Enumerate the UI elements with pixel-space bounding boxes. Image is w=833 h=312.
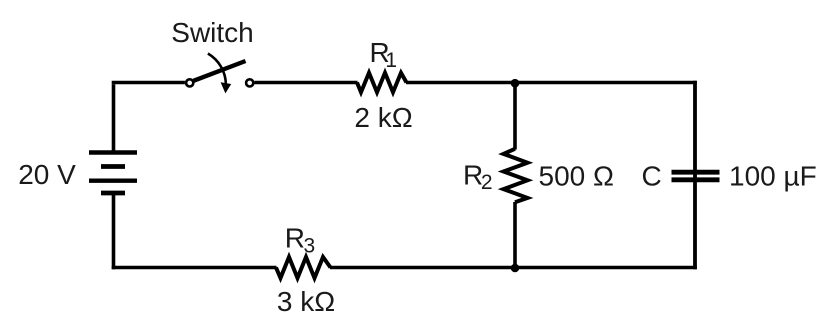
wire R2 branch lower <box>513 202 517 269</box>
svg-text:C: C <box>642 161 662 192</box>
wire left vertical upper (top-left corner to battery +) <box>112 84 116 152</box>
svg-text:100 µF: 100 µF <box>729 161 817 192</box>
svg-text:R: R <box>285 223 305 254</box>
wire bottom-right segment <box>515 266 697 270</box>
wire R1 to top-right corner <box>406 81 697 85</box>
svg-text:500 Ω: 500 Ω <box>539 161 614 192</box>
resistor R1 <box>357 73 407 92</box>
wire right vertical <box>693 81 697 270</box>
battery B1 <box>89 153 137 194</box>
wire top-left segment <box>112 81 185 85</box>
svg-text:3: 3 <box>304 235 316 258</box>
svg-text:2: 2 <box>481 171 493 194</box>
wire switch to R1 <box>255 81 358 85</box>
svg-text:3 kΩ: 3 kΩ <box>277 286 335 312</box>
junction node top (R1/R2/C) <box>511 79 520 88</box>
svg-text:20 V: 20 V <box>18 159 76 190</box>
capacitor C <box>672 172 720 180</box>
wire R3 to bottom junction <box>330 266 515 270</box>
svg-text:1: 1 <box>385 49 397 72</box>
svg-text:2 kΩ: 2 kΩ <box>354 102 412 133</box>
wire bottom-left segment <box>112 266 277 270</box>
wire R2 branch upper <box>513 83 517 150</box>
resistor R3 <box>276 257 331 278</box>
switch SW1 <box>186 54 253 94</box>
wire left vertical lower (battery - to bottom-left corner) <box>112 193 116 269</box>
junction node bottom (R2/bottom wire) <box>511 264 520 273</box>
svg-text:Switch: Switch <box>171 17 253 48</box>
resistor R2 <box>504 149 528 203</box>
